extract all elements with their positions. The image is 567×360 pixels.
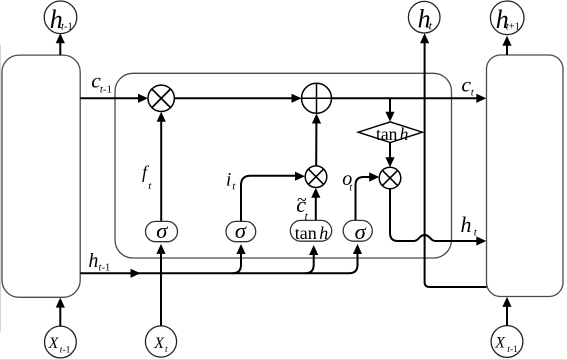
svg-text:h: h — [88, 250, 98, 272]
wire: X2 down, right as h_t with hop and arrow into right block — [390, 189, 486, 246]
wire: right block top to h_t+1 arrow — [502, 36, 511, 55]
gate X2: output multiply — [379, 167, 401, 189]
svg-text:σ: σ — [355, 219, 367, 244]
svg-text:-1: -1 — [102, 263, 111, 274]
node x_t-1 circle (bottom-left) — [45, 326, 77, 358]
svg-text:X: X — [494, 334, 506, 351]
svg-text:-1: -1 — [64, 21, 73, 32]
svg-text:X: X — [153, 335, 165, 352]
svg-text:X: X — [48, 335, 60, 352]
wire: diamond down into X2 — [385, 143, 394, 168]
wire: branch from h rail up into tanh — [305, 245, 318, 273]
svg-text:σ: σ — [156, 218, 168, 243]
svg-text:~: ~ — [297, 190, 307, 210]
label i_t — [226, 170, 236, 193]
wire: f_t from sigma1 up into X1 — [157, 112, 166, 222]
wire: o_t from sigma3 up and right into X2 — [356, 172, 380, 220]
wire: h rail from left block with arrow, ending in sigma3 branch — [80, 244, 362, 278]
node x_t-1 circle (bottom-right, as printed) — [491, 326, 523, 358]
wire: left block top to h_t-1 arrow — [56, 33, 65, 55]
wire: x_t+1 to right block bottom arrow — [502, 297, 511, 326]
wire: c rail down into diamond — [385, 98, 394, 121]
svg-text:t: t — [165, 345, 168, 355]
diamond tanh — [358, 122, 422, 144]
svg-text:h: h — [461, 212, 472, 237]
svg-text:h: h — [400, 124, 409, 144]
gate sigma3 — [343, 219, 372, 244]
image edge artifacts — [0, 45, 2, 332]
wire: Xin up into plus node — [312, 114, 321, 166]
right cell block (t+1) — [487, 55, 564, 297]
node h_t-1 circle — [44, 1, 77, 34]
svg-text:-1: -1 — [103, 84, 112, 96]
node h_t+1 circle — [490, 1, 524, 35]
left cell block (t-1) — [2, 55, 80, 297]
label o_t — [342, 168, 353, 193]
node h_t circle — [408, 1, 440, 33]
node plus (add) — [302, 83, 332, 113]
gate Xin: input multiply — [305, 166, 327, 188]
label h_t-1 (rail) — [88, 250, 110, 274]
wire: i_t from sigma2 up and right into Xin — [241, 172, 305, 222]
wire: from right block left edge up to h_t circle — [420, 33, 487, 287]
gate X1: forget multiply — [148, 85, 174, 111]
LSTM cell body — [115, 73, 452, 258]
svg-text:-1: -1 — [510, 345, 518, 355]
wire: x_t-1 to left block bottom arrow — [56, 298, 65, 327]
svg-text:+1: +1 — [509, 22, 520, 33]
label c_t — [461, 72, 474, 98]
label f_t — [142, 162, 152, 192]
gate tanh (stadium) — [290, 220, 331, 243]
wire: c rail from plus to right block with arrow — [332, 94, 487, 103]
gate sigma2 — [226, 218, 256, 243]
svg-text:h: h — [319, 223, 328, 243]
label c~_t — [296, 190, 308, 223]
wire: tanh gate up into Xin — [311, 188, 320, 221]
svg-text:-1: -1 — [63, 346, 71, 356]
svg-text:tan: tan — [295, 223, 317, 243]
svg-text:σ: σ — [235, 218, 247, 243]
wire: X1 to plus node — [174, 94, 301, 103]
svg-text:tan: tan — [376, 124, 398, 144]
label h_t (output) — [461, 212, 478, 238]
wire: c_t-1 from left block into gate X1 — [80, 94, 148, 103]
svg-text:i: i — [226, 170, 231, 191]
label c_t-1 — [91, 69, 112, 96]
gate sigma1 — [146, 218, 178, 243]
wire: x_t line up into sigma1 (junction on h rail) — [156, 244, 165, 326]
wire: branch from h rail up into sigma2 — [233, 244, 246, 273]
node x_t circle (bottom-middle) — [145, 326, 176, 357]
